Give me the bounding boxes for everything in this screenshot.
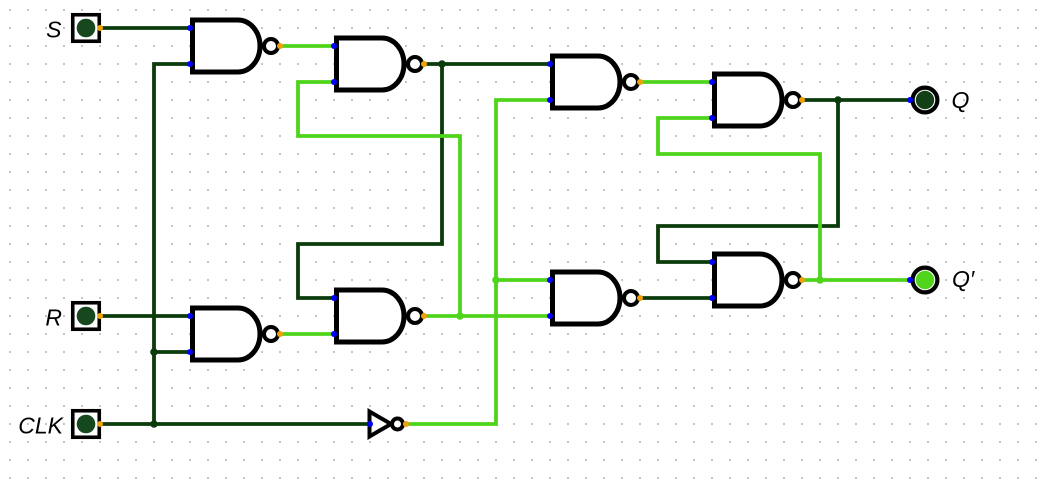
svg-text:S: S xyxy=(46,17,62,43)
svg-text:Q′: Q′ xyxy=(952,266,975,292)
svg-text:Q: Q xyxy=(952,87,970,113)
svg-text:R: R xyxy=(45,305,62,331)
svg-text:CLK: CLK xyxy=(18,413,64,439)
